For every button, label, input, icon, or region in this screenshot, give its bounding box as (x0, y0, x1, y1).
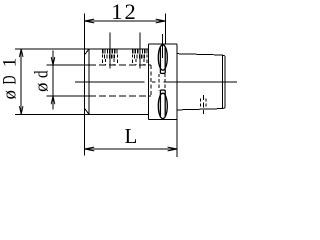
dim phid top arrow (outside, pointing down) (51, 57, 55, 65)
dim L line (85, 148, 178, 150)
flange cross hole bottom opening (158, 90, 167, 119)
dim 12 left arrow (85, 19, 95, 23)
set screw hole 2 centerline (139, 33, 141, 69)
dim 12 right arrow (156, 19, 166, 23)
bore top hidden line (89, 64, 151, 66)
dim text phid (31, 70, 53, 92)
flange cross hole top opening (158, 45, 167, 74)
svg-text:ø: ø (0, 90, 21, 100)
flange cross hole centerline stub (161, 34, 163, 58)
dim phid bottom arrow (outside, pointing up) (51, 96, 55, 104)
right cylinder top edge (tapered) (177, 54, 222, 55)
bore bottom hidden line (89, 95, 151, 97)
left chamfer diagonal top (85, 49, 89, 55)
right end chamfer diag top (222, 54, 225, 57)
svg-text:d: d (31, 70, 52, 78)
flange top line (149, 43, 178, 45)
right end chamfer edge (221, 55, 223, 109)
left face line + dim extension (84, 14, 86, 156)
centerline (part axis) (75, 81, 237, 83)
dim 12 line (85, 20, 166, 22)
dim phid line (52, 51, 54, 110)
left chamfer diagonal bottom (85, 108, 89, 114)
bore bottom extension line (47, 95, 90, 97)
right cylinder bottom tapped hole centerline (202, 95, 204, 114)
svg-text:L: L (125, 124, 138, 148)
set screw hole 1 thread ticks (103, 49, 117, 53)
flange right face + L extension (176, 44, 178, 157)
flange bottom line (149, 119, 178, 121)
right end face (224, 56, 226, 108)
bore end hidden line (150, 65, 152, 96)
dim phiD1 top arrow (19, 49, 23, 57)
bore top extension line (47, 64, 90, 66)
set screw hole 1 centerline (109, 33, 111, 69)
right end chamfer diag bottom (222, 107, 225, 110)
left chamfer edge (88, 49, 90, 115)
svg-text:ø: ø (32, 83, 53, 93)
dim text phiD1 (0, 58, 21, 100)
set screw hole 2 hidden sides (133, 55, 147, 66)
flange left face (148, 44, 150, 120)
dim phiD1 bottom arrow (19, 106, 23, 114)
svg-text:D: D (0, 75, 20, 84)
set screw hole 2 inner ticks (135, 55, 145, 59)
dim 12 right extension line (164, 14, 166, 45)
set screw hole 1 inner ticks (105, 55, 115, 59)
right cylinder bottom tapped hole hidden sides (201, 99, 206, 109)
svg-text:12: 12 (111, 0, 138, 24)
right cylinder bottom edge (tapered) (177, 109, 222, 110)
body outer bottom line + phiD1 bottom extension (15, 113, 149, 115)
svg-text:1: 1 (0, 58, 21, 68)
body outer top line + phiD1 top extension (15, 48, 149, 50)
set screw hole 2 thread ticks (133, 49, 147, 53)
dim L left arrow (85, 147, 95, 151)
flange cross hole hidden sides (159, 74, 165, 91)
dim phiD1 line (20, 49, 22, 115)
set screw hole 1 hidden sides (103, 55, 118, 66)
dim L right arrow (168, 147, 178, 151)
